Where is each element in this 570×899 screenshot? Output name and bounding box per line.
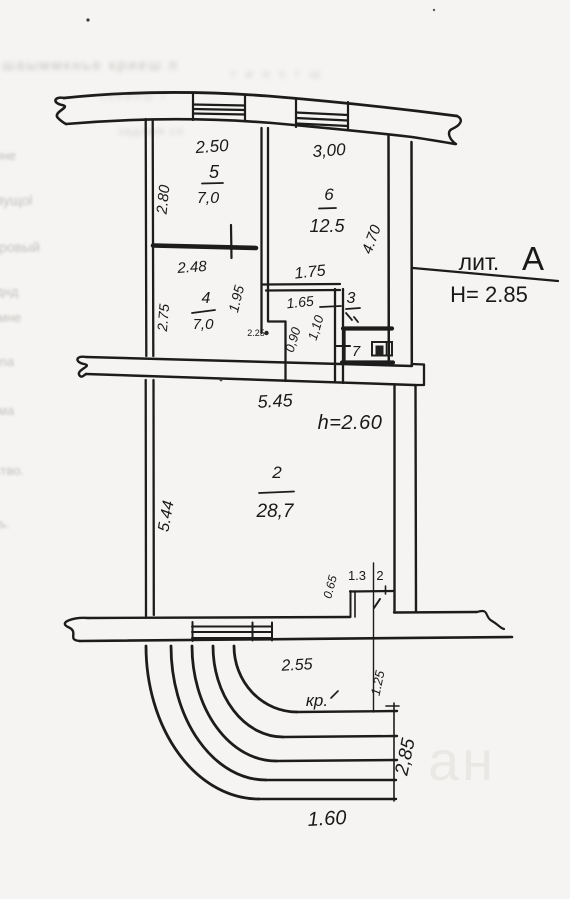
wall B (between rooms 5 and 6) [260, 128, 262, 333]
mid wall right tab [412, 364, 425, 385]
svg-text:ъ.: ъ. [0, 516, 10, 531]
stray dot below mid wall [220, 379, 223, 382]
window W1 in top wall [193, 94, 245, 121]
bottom wall right break squiggle [477, 611, 504, 629]
svg-text:6: 6 [324, 185, 334, 204]
bottom wall bottom line [80, 637, 512, 641]
svg-text:5: 5 [209, 162, 220, 182]
svg-text:лне: лне [0, 148, 16, 163]
svg-text:2: 2 [376, 568, 383, 583]
door swing ticks room 3 [346, 313, 352, 320]
speck top left [86, 18, 89, 21]
top wall right break squiggle [449, 116, 461, 144]
mid wall left squiggle [77, 357, 86, 377]
svg-text:2: 2 [271, 463, 282, 482]
svg-text:мне: мне [0, 310, 21, 325]
svg-text:2.25: 2.25 [247, 328, 265, 338]
svg-text:2.75: 2.75 [154, 303, 172, 333]
faint bleed-through text top band [2, 57, 323, 138]
svg-text:1.60: 1.60 [307, 807, 347, 831]
tick after kr label [331, 691, 338, 698]
wall C (right exterior upper) [387, 136, 390, 364]
svg-text:гровый: гровый [0, 239, 40, 255]
niche / doorway bottom of room 2 [350, 590, 394, 593]
bottom wall top line right part [394, 611, 477, 614]
svg-text:h=2.60: h=2.60 [318, 412, 383, 434]
room 7 bottom wall [342, 360, 393, 364]
room 7 fixture icon [372, 342, 392, 356]
bottom exterior wall top line [88, 617, 350, 618]
svg-text:3,00: 3,00 [312, 140, 347, 161]
svg-text:1.65: 1.65 [286, 293, 315, 312]
right dimension line 2.85 [393, 703, 395, 801]
top wall bottom line [66, 119, 455, 144]
svg-text:А: А [522, 240, 544, 277]
divider wall rooms 5/4 [153, 246, 256, 249]
svg-text:7: 7 [352, 343, 361, 360]
mid thick wall [86, 357, 412, 366]
svg-text:7,0: 7,0 [197, 190, 219, 207]
faint left margin fragments [0, 148, 40, 531]
big room left wall [145, 380, 148, 616]
svg-text:кр.: кр. [306, 691, 328, 710]
step niche left of room 3 [268, 320, 286, 322]
svg-text:28,7: 28,7 [256, 501, 295, 522]
svg-text:7,0: 7,0 [193, 316, 215, 333]
wall A (left wall rooms 5/4) [145, 119, 148, 356]
porch step arcs [146, 646, 259, 799]
top wall left break squiggle [55, 98, 66, 124]
litera underline [413, 268, 558, 281]
svg-text:т и н с г ш: т и н с г ш [230, 66, 323, 81]
speck top right [433, 9, 435, 11]
svg-text:Н= 2.85: Н= 2.85 [450, 282, 528, 307]
svg-text:5.45: 5.45 [257, 390, 294, 412]
wall between rooms 3 and 7 [334, 289, 336, 382]
top wall top line [64, 92, 457, 116]
room 7 door dash [336, 345, 350, 347]
svg-text:12.5: 12.5 [309, 216, 345, 236]
svg-text:задлмя со: задлмя со [118, 124, 184, 138]
svg-text:ına: ına [0, 354, 15, 369]
window W2 in top wall [296, 99, 348, 130]
svg-text:ма: ма [0, 403, 15, 418]
svg-text:1.75: 1.75 [294, 262, 327, 282]
big room right wall outer [414, 385, 417, 612]
svg-text:лит.: лит. [459, 249, 500, 275]
svg-text:днд: днд [0, 284, 19, 299]
porch step lines [259, 798, 396, 800]
svg-text:2.80: 2.80 [153, 183, 173, 215]
window W3 in bottom wall [192, 622, 272, 641]
svg-text:ан: ан [428, 729, 496, 792]
room 7 left wall [343, 330, 345, 361]
svg-text:2.48: 2.48 [176, 258, 208, 277]
thin dimension line through niche [373, 563, 375, 712]
room 7 top wall [343, 326, 392, 330]
bathroom top wall [263, 283, 340, 286]
svg-text:2.50: 2.50 [194, 136, 230, 157]
svg-text:ство.: ство. [0, 463, 24, 478]
svg-text:1.3: 1.3 [348, 568, 366, 583]
door leaf rooms 5/4 [230, 225, 233, 258]
big room right wall inner [393, 386, 395, 611]
bottom wall left break squiggle [65, 618, 88, 641]
svg-text:вущol: вущol [0, 192, 33, 208]
svg-text:4: 4 [202, 290, 211, 307]
svg-text:шаыммкнье криеш п: шаыммкнье криеш п [2, 57, 179, 74]
svg-text:завмеш т: завмеш т [100, 89, 168, 103]
svg-text:3: 3 [347, 290, 356, 307]
svg-text:2.55: 2.55 [280, 656, 313, 675]
